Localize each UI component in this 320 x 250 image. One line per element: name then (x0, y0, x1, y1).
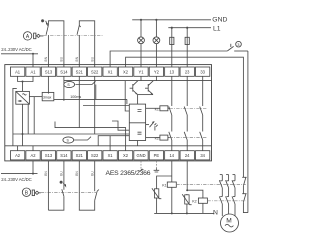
relay coil K2 internal (146, 135, 170, 141)
internal bus 4 (83, 105, 129, 107)
svg-text:100ms: 100ms (70, 95, 81, 99)
NC aux contact K1 (feedback) (242, 177, 246, 186)
wire switch to right rail (247, 51, 249, 213)
svg-text:Y2: Y2 (154, 70, 160, 75)
bottom terminal row (10, 151, 209, 160)
output contact 33-34 (200, 76, 203, 150)
svg-text:A1: A1 (15, 70, 21, 75)
GND rail (132, 17, 227, 24)
svg-text:S22: S22 (91, 70, 99, 75)
phase line L1 to motor (219, 175, 222, 216)
logic block K relays (129, 104, 145, 140)
sensor B1 loop (top left, S13-S14) (46, 21, 64, 67)
timer ellipse 2 (63, 137, 91, 143)
device box AES 2365/2366 (5, 65, 212, 161)
internal bus 2 (55, 122, 126, 151)
svg-text:S21: S21 (76, 153, 84, 158)
svg-text:34: 34 (200, 153, 205, 158)
internal bus 1 (54, 98, 127, 100)
relay coil K1 internal (146, 106, 170, 112)
K1 linkage dash to contacts (176, 184, 246, 186)
svg-text:BU: BU (60, 56, 64, 61)
svg-text:23: 23 (185, 70, 190, 75)
A1 bridge wires (18, 76, 33, 91)
svg-text:X1: X1 (108, 70, 114, 75)
svg-text:BN: BN (75, 56, 79, 61)
svg-text:S21: S21 (76, 70, 84, 75)
svg-text:N: N (213, 210, 218, 217)
top terminal row (10, 67, 209, 76)
feedback loop bottom link (243, 202, 248, 212)
svg-text:A1: A1 (30, 70, 36, 75)
wire 24 to K2 branch (186, 161, 203, 198)
phase line L3 to motor (232, 175, 235, 216)
switch S3 (feedback loop, note 3) (227, 41, 248, 51)
svg-text:GND: GND (212, 17, 227, 24)
wire supply to A1 (1, 53, 38, 55)
svg-text:GND: GND (136, 153, 145, 158)
inner bottom line (5, 145, 212, 147)
logic block bottom wire (137, 141, 139, 146)
varistor K2 (182, 194, 191, 213)
svg-text:13: 13 (170, 70, 175, 75)
svg-text:S14: S14 (60, 153, 68, 158)
wire supply to A2 (1, 173, 38, 175)
S22 wire into logic (94, 76, 96, 134)
svg-text:K1: K1 (162, 183, 166, 187)
svg-text:24..230V AC/DC: 24..230V AC/DC (1, 47, 31, 52)
K1 internal linkage dash (170, 107, 207, 109)
A2 stubs (17, 146, 19, 151)
S21 wire into logic (78, 76, 80, 127)
NC aux contact K2 (feedback) (242, 186, 246, 202)
N rail (154, 210, 218, 217)
transistor output Y2 (145, 76, 156, 94)
svg-text:BN: BN (44, 171, 48, 176)
wire PSU down to bottom bus (22, 104, 24, 146)
motor M (221, 214, 239, 232)
svg-text:S13: S13 (45, 153, 53, 158)
L1 rail (168, 25, 220, 32)
PSU to 3max link (29, 96, 42, 98)
svg-text:BU: BU (90, 56, 94, 61)
wire X2 feedback (126, 57, 244, 177)
lamp H1 (on Y1) (138, 20, 145, 67)
svg-text:24: 24 (185, 153, 190, 158)
lamp H2 (on Y2) (153, 20, 160, 67)
svg-text:S13: S13 (45, 70, 53, 75)
wire X1 feedback to switch (110, 51, 227, 67)
svg-text:BU: BU (60, 171, 64, 176)
K2 internal linkage dash (170, 137, 207, 139)
output contact 23-24 (184, 76, 187, 150)
power supply unit (16, 91, 30, 104)
svg-text:AES 2365/2366: AES 2365/2366 (106, 170, 151, 177)
connector B circle (22, 188, 30, 196)
transistor output Y1 (130, 76, 141, 94)
svg-text:PE: PE (154, 153, 160, 158)
fuse F1 (on 13) (170, 28, 174, 67)
actuation dash line top sensors (43, 34, 102, 36)
svg-text:M: M (226, 218, 232, 225)
timer ellipse 1 (64, 81, 127, 104)
svg-text:33: 33 (200, 70, 205, 75)
wire color labels bottom (44, 171, 94, 176)
connector B plug symbol (32, 190, 41, 196)
svg-text:A2: A2 (15, 153, 21, 158)
svg-text:A2: A2 (30, 153, 36, 158)
svg-text:L1: L1 (213, 25, 221, 32)
GND shield stub (139, 161, 144, 171)
svg-text:K2: K2 (192, 200, 196, 204)
magnet arrow + asterisk bottom (60, 181, 67, 188)
S13 wire into logic (47, 76, 49, 93)
LED indicator (146, 121, 158, 131)
actuation dash line bottom sensors (41, 191, 96, 193)
PE earth stub (154, 161, 160, 172)
connector A circle (23, 32, 31, 40)
inner left line (13, 88, 17, 145)
magnet arrow + asterisk top (41, 19, 48, 26)
svg-text:BN: BN (44, 56, 48, 61)
svg-text:BU: BU (90, 171, 94, 176)
svg-text:X2: X2 (123, 153, 129, 158)
contactor coil K1 (162, 182, 176, 213)
svg-text:S22: S22 (91, 153, 99, 158)
inner top line (64, 80, 212, 82)
fuse F2 (on 23) (185, 28, 189, 67)
sensor B3 loop (bottom left) (48, 161, 64, 210)
connector A plug symbol (34, 33, 44, 39)
3max box (42, 92, 54, 100)
svg-text:BN: BN (75, 171, 79, 176)
wire into logic left (125, 81, 129, 111)
sensor B2 loop (top right, S21-S22) (77, 21, 95, 67)
wire 14 to K1 branch (157, 161, 172, 182)
sensor B4 loop (bottom right) (79, 161, 99, 210)
X1 bottom wire into logic (109, 136, 111, 151)
internal bus 3 (13, 133, 129, 135)
S14 wire into logic (63, 76, 65, 101)
svg-text:X2: X2 (123, 70, 129, 75)
transistor emitter bus (138, 95, 153, 105)
svg-text:24..230V AC/DC: 24..230V AC/DC (1, 177, 31, 182)
contactor coil K2 (192, 198, 207, 213)
svg-text:X1: X1 (108, 153, 114, 158)
svg-text:3max: 3max (43, 96, 52, 100)
svg-text:14: 14 (170, 153, 175, 158)
output contact 13-14 (169, 76, 172, 150)
varistor K1 (152, 182, 161, 213)
phase line L2 to motor (226, 175, 229, 215)
svg-text:Y1: Y1 (138, 70, 144, 75)
K2 linkage dash to contacts (207, 200, 245, 202)
svg-text:S14: S14 (60, 70, 68, 75)
wire color labels top (44, 56, 94, 61)
